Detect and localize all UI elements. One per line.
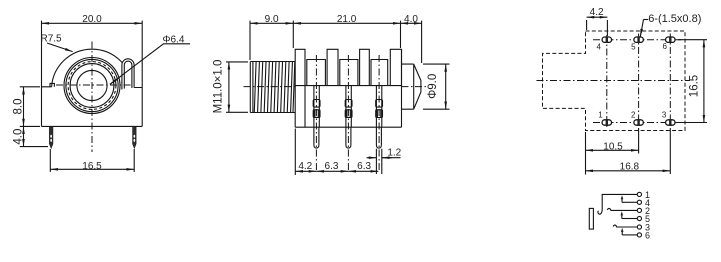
dim 4.0b line (401, 22, 422, 24)
front view small left notch (50, 83, 54, 86)
front view bezel circle inner (66, 59, 118, 111)
side view lug 2 (327, 49, 338, 85)
schematic contact 6 arrow (621, 231, 623, 235)
side view body bottom edge (295, 126, 401, 128)
side view body right edge (401, 49, 403, 127)
svg-text:8.0: 8.0 (13, 99, 25, 115)
footprint outline dashed (543, 31, 686, 131)
dim 16.5fp line (703, 40, 705, 123)
schematic terminal 6 circle (637, 233, 641, 237)
footprint col2 centerline (638, 34, 640, 128)
front view horizontal centerline (56, 84, 133, 86)
dim 4.0 ext line right (421, 21, 423, 63)
side view thread lines (254, 62, 294, 112)
dim 10.5 line (586, 149, 639, 151)
dim 16.5fp ext lines (677, 40, 708, 123)
side view pin 2 (346, 127, 351, 148)
dim 4.2fp ext right (606, 20, 608, 36)
dim 4.2fp ext left (586, 20, 588, 30)
schematic terminal 2 circle (637, 208, 641, 212)
schematic contact 5 arrow (621, 215, 623, 219)
dim 9.0 line (250, 22, 293, 24)
schematic contact 5 line (622, 218, 638, 220)
side view pin 1 (314, 127, 319, 148)
dim 8.0/4.0 extension middle (20, 125, 40, 127)
svg-text:3: 3 (662, 111, 667, 120)
R7.5 leader (47, 43, 73, 52)
dim 16.5 line (50, 168, 134, 170)
side view contact 3 (371, 60, 388, 86)
footprint pin 1 (602, 120, 612, 125)
svg-text:4.2: 4.2 (298, 161, 312, 172)
svg-text:R7.5: R7.5 (41, 33, 63, 44)
front view jack hole circle dia 6.4 (77, 70, 107, 100)
dim 1.2 tail line (382, 157, 401, 159)
footprint pin 4 (602, 37, 612, 42)
svg-text:16.5: 16.5 (82, 161, 102, 172)
front view thread dashed circle (68, 62, 116, 110)
svg-text:16.8: 16.8 (620, 162, 640, 173)
front view body outline (42, 21, 143, 127)
svg-text:6.3: 6.3 (357, 161, 371, 172)
front view bushing circle (70, 64, 114, 108)
side view centerline pin2 (347, 55, 349, 170)
svg-text:21.0: 21.0 (337, 14, 357, 25)
dim 16.8 line (586, 170, 671, 172)
side view contact tail 3 (376, 86, 381, 128)
side view lug 3 (360, 49, 370, 85)
front view right pin (133, 126, 137, 148)
schematic contact 6 line (622, 234, 637, 236)
front view bezel dome arc (52, 49, 133, 87)
dim 9.0/21.0 ext line (292, 21, 294, 48)
dim 4.0 extension bottom (20, 146, 48, 148)
side view body top edge (295, 85, 401, 87)
label leader (644, 19, 649, 21)
svg-text:5: 5 (631, 42, 636, 51)
svg-text:4.0: 4.0 (13, 129, 25, 145)
dim 21.0/4.0 ext line (400, 21, 402, 48)
side view M11 thread barrel (250, 62, 295, 113)
footprint pin 3 (666, 120, 676, 125)
schematic terminal 3 circle (637, 225, 641, 229)
footprint pin 2 (634, 120, 644, 125)
schematic mid lever (613, 225, 637, 227)
side view horizontal centerline (244, 86, 428, 88)
dim 4.2 line (295, 170, 316, 172)
svg-text:9.0: 9.0 (265, 14, 279, 25)
dia 9.0 dim line (445, 64, 447, 109)
dim 4.0 line (23, 126, 25, 146)
side view terminal holes 3 (376, 100, 383, 108)
svg-text:M11.0×1.0: M11.0×1.0 (213, 60, 225, 114)
dia 9.0 ext lines (423, 64, 450, 109)
dim 1.2 ext lines (376, 149, 381, 174)
dim 4.2fp line (587, 16, 608, 18)
dim 20.0 line (42, 22, 143, 24)
footprint pin 6 (666, 37, 676, 42)
front view ear tab inner (124, 61, 132, 88)
side view contact 1 (307, 60, 326, 86)
schematic contact 4 line (622, 201, 637, 203)
svg-text:10.5: 10.5 (603, 142, 623, 153)
svg-text:4: 4 (596, 42, 601, 51)
M11 dim line (228, 62, 230, 112)
side view contact tail 1 (314, 86, 319, 128)
dim 9.0 ext line left (249, 21, 251, 60)
M11 dim ext lines (226, 62, 248, 112)
footprint pin 5 (634, 37, 644, 42)
schematic contact 4 arrow (621, 199, 623, 203)
schematic tip lever (598, 194, 637, 214)
schematic terminal 1 circle (637, 192, 641, 196)
front view left pin (49, 126, 53, 148)
svg-text:4.2: 4.2 (590, 7, 604, 18)
dim 16.5 extension lines (50, 149, 134, 172)
side view pin 3 (376, 127, 381, 148)
footprint bottom row centerline (593, 122, 681, 124)
footprint col3 centerline (669, 34, 671, 128)
dim 6.3b line (348, 170, 378, 172)
dim 21.0 line (293, 22, 400, 24)
front view bezel circle outer (64, 58, 120, 114)
side view terminal holes 2 (345, 100, 352, 108)
side bottom ext line left (294, 129, 296, 176)
svg-text:4.0: 4.0 (404, 14, 418, 25)
side view lug 4 (390, 49, 401, 85)
side view contact 2 (340, 60, 358, 86)
footprint top row centerline (593, 39, 681, 41)
footprint horizontal centerline (537, 80, 691, 82)
front view ear tab (122, 59, 134, 90)
side view centerline pin1 (315, 55, 317, 170)
svg-text:Φ9.0: Φ9.0 (427, 74, 439, 99)
schematic ring lever (607, 208, 637, 210)
svg-text:1: 1 (598, 111, 603, 120)
svg-text:16.5: 16.5 (688, 75, 700, 97)
svg-text:6-(1.5x0.8): 6-(1.5x0.8) (648, 13, 701, 25)
dim 10.5 ext right (638, 128, 640, 154)
side view rear cap (402, 64, 421, 109)
svg-text:6.3: 6.3 (325, 161, 339, 172)
svg-text:20.0: 20.0 (82, 14, 102, 25)
svg-text:6: 6 (662, 42, 667, 51)
dia 6.4 leader (110, 44, 190, 85)
dim 16.8 ext right (669, 128, 671, 174)
dim 8.0 extension top (20, 86, 40, 88)
svg-text:1.2: 1.2 (387, 148, 401, 159)
side view flange (295, 49, 305, 127)
dim 6.3a line (316, 170, 348, 172)
footprint col1 centerline (606, 35, 608, 128)
svg-text:2: 2 (631, 111, 636, 120)
side view centerline pin3 (378, 55, 380, 170)
dim 1.2 arrows (367, 157, 377, 159)
side view terminal holes 1 (313, 100, 320, 108)
schematic sleeve (589, 208, 593, 229)
schematic terminal 5 circle (637, 216, 641, 220)
dim 10.5 ext left (585, 132, 587, 175)
side view contact tail 2 (346, 86, 351, 128)
svg-text:6: 6 (645, 231, 650, 241)
front view vertical centerline (91, 42, 93, 153)
dim 8.0 line (23, 87, 25, 127)
schematic terminal 4 circle (637, 200, 641, 204)
